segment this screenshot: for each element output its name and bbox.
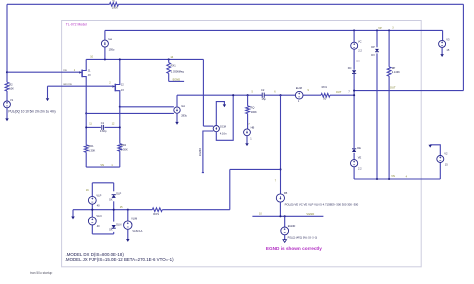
node out upper — [353, 90, 355, 92]
wire out net — [354, 90, 463, 92]
source EGND — [281, 216, 296, 235]
wire clamp gnd stub — [72, 210, 74, 217]
wire GA out — [176, 95, 178, 107]
node inv junction — [6, 71, 8, 73]
wire v3 stub — [442, 30, 444, 40]
wire right loop — [462, 4, 464, 90]
svg-text:VLN: VLN — [96, 214, 101, 218]
wire left input vertical — [6, 4, 8, 82]
diode DC — [348, 60, 360, 73]
svg-text:RO1: RO1 — [322, 85, 328, 89]
node GA tap right — [119, 106, 121, 108]
svg-text:GCM: GCM — [220, 124, 226, 128]
svg-text:2.2: 2.2 — [358, 49, 362, 53]
label model jx — [65, 257, 174, 262]
ground V1 — [5, 118, 9, 121]
svg-text:POL(2) (4P,2) 0N(-.03 -3 -3): POL(2) (4P,2) 0N(-.03 -3 -3) — [288, 236, 318, 239]
svg-text:POL(5) VE VC VE VLP VLN 5 4.71: POL(5) VE VC VE VLP VLN 5 4.7159E9 -300 … — [285, 203, 359, 207]
wire RQ to HB — [248, 114, 251, 129]
wire v2 loop — [430, 145, 440, 179]
wire drain bottom — [86, 151, 120, 167]
svg-text:100K: 100K — [251, 110, 257, 114]
current source HB — [244, 126, 255, 141]
source VLP — [88, 194, 101, 208]
svg-text:195u: 195u — [109, 48, 115, 52]
resistor RD1 — [84, 144, 95, 152]
resistor RP — [387, 66, 400, 76]
resistor RX1 — [167, 59, 185, 81]
wire gcm out loop — [216, 95, 233, 140]
wire top feedback — [7, 3, 463, 5]
label OUT right — [390, 85, 396, 89]
svg-text:PUL(0Q 10 10 5m 2m 2m 1u 4m): PUL(0Q 10 10 5m 2m 2m 1u 4m) — [8, 110, 55, 114]
wire vee rail — [354, 174, 440, 179]
wire HB gnd — [246, 136, 248, 144]
wire v3 gnd — [441, 47, 443, 54]
current source GCM — [213, 124, 227, 135]
svg-text:VLP: VLP — [96, 194, 101, 198]
model bounding box — [62, 21, 422, 267]
svg-text:283u: 283u — [181, 113, 187, 117]
svg-text:RD2: RD2 — [121, 143, 127, 147]
svg-text:JX: JX — [88, 73, 91, 77]
note EGND correct — [266, 246, 322, 251]
svg-text:100K: 100K — [112, 6, 118, 10]
svg-text:1.0306Meg: 1.0306Meg — [171, 69, 185, 73]
wire inv input — [7, 68, 79, 72]
svg-text:V3: V3 — [446, 38, 450, 42]
resistor RD2 — [118, 143, 128, 151]
svg-text:1.30K: 1.30K — [121, 147, 128, 151]
svg-text:VN: VN — [391, 174, 395, 178]
source V2 — [437, 152, 448, 167]
svg-text:DX: DX — [109, 229, 113, 232]
node GA tap left — [85, 112, 87, 114]
ground VLIM — [126, 239, 130, 242]
label FB poly — [285, 203, 359, 207]
resistor R1 — [110, 0, 119, 10]
current source FB — [276, 191, 287, 202]
svg-text:2.2: 2.2 — [358, 167, 362, 171]
node Iee rail — [104, 58, 106, 60]
wire VP rail — [105, 26, 443, 31]
source V3 — [439, 38, 450, 52]
svg-text:EGND: EGND — [288, 224, 296, 228]
label VN drain — [100, 163, 113, 167]
source V1 — [4, 98, 14, 108]
svg-text:VGND: VGND — [306, 212, 314, 216]
wire gcm top gnd — [216, 102, 224, 126]
svg-text:C2: C2 — [261, 88, 265, 92]
node rp vee — [388, 178, 390, 180]
node gcm bus — [232, 94, 234, 96]
node RX1 rail — [168, 56, 174, 61]
svg-text:VP: VP — [378, 26, 382, 30]
svg-text:10K: 10K — [9, 87, 14, 91]
wire V1 to ground — [6, 108, 8, 119]
svg-text:non inv: non inv — [63, 82, 72, 86]
svg-text:HB: HB — [251, 126, 255, 130]
source VE — [351, 155, 363, 170]
resistor RO1 — [321, 85, 330, 101]
svg-text:DX: DX — [109, 199, 113, 202]
wire Iee branch — [104, 30, 106, 59]
source VLN — [88, 214, 101, 228]
svg-text:DX: DX — [371, 54, 375, 57]
current source GA — [174, 104, 188, 117]
svg-text:EGND: EGND — [173, 77, 181, 81]
label non inv — [63, 82, 111, 86]
svg-text:C1: C1 — [101, 121, 105, 125]
svg-text:R2: R2 — [9, 82, 13, 86]
svg-text:RQ: RQ — [251, 105, 255, 109]
wire clamp bottom — [92, 233, 113, 235]
wire GA input lower — [86, 112, 174, 114]
svg-text:GA: GA — [181, 104, 185, 108]
svg-text:3.60p: 3.60p — [100, 129, 107, 133]
label bus nodes — [252, 89, 351, 94]
svg-text:RP: RP — [392, 66, 396, 70]
svg-text:V1: V1 — [10, 98, 14, 102]
node clamp tie — [279, 168, 281, 170]
vcvs ELIM — [295, 86, 303, 103]
ground clamp — [71, 217, 75, 220]
resistor ROS — [152, 208, 162, 216]
node dp rail — [376, 29, 378, 31]
svg-text:VN: VN — [100, 163, 104, 167]
wire J2 drain lower — [119, 107, 121, 144]
svg-text:VLIM: VLIM — [131, 217, 137, 221]
label TL-072 Model — [66, 23, 87, 27]
svg-text:FB: FB — [284, 191, 288, 195]
wire stage bus — [177, 94, 354, 96]
svg-text:R1: R1 — [112, 0, 116, 3]
node dp vee — [376, 178, 378, 180]
ground GA — [175, 122, 179, 125]
wire J1 drain lower — [85, 113, 87, 144]
svg-text:RX1: RX1 — [171, 64, 177, 68]
svg-text:1.30K: 1.30K — [88, 149, 95, 153]
ground V2 — [429, 145, 432, 148]
capacitor C2 — [261, 88, 266, 101]
wire rp column — [388, 30, 390, 179]
svg-text:DLN: DLN — [116, 222, 121, 226]
svg-text:DE: DE — [357, 146, 361, 150]
label EGND poly — [288, 236, 318, 239]
svg-text:DP: DP — [371, 46, 375, 49]
svg-text:DLP: DLP — [116, 191, 121, 195]
node RQ bus — [247, 94, 249, 96]
diode DE — [352, 146, 361, 152]
jfet J1 — [79, 59, 91, 113]
resistor R2 — [5, 82, 14, 91]
wire gcm lower pin — [202, 131, 214, 173]
wire dlp column — [113, 183, 115, 234]
wire EGND stub — [169, 77, 184, 81]
source VLIM — [124, 217, 143, 233]
ground noninv — [46, 98, 50, 101]
capacitor C1 — [85, 121, 121, 133]
source VC — [351, 40, 363, 53]
wire source rail — [86, 55, 203, 59]
svg-text:15p: 15p — [262, 97, 267, 101]
wire vlp column — [91, 183, 93, 234]
label V1 pulse — [8, 110, 55, 114]
ground GCM — [223, 104, 226, 107]
svg-text:JX: JX — [121, 88, 124, 92]
wire fb to egnd — [279, 202, 281, 216]
jfet J2 — [112, 59, 124, 106]
node out lower — [353, 94, 355, 96]
svg-text:DX: DX — [356, 60, 360, 63]
svg-text:ROS: ROS — [153, 212, 159, 216]
svg-text:VE: VE — [358, 155, 362, 159]
svg-text:VLIM 1A: VLIM 1A — [132, 229, 142, 233]
svg-text:2.143K: 2.143K — [392, 70, 400, 74]
ground HB — [245, 143, 249, 146]
ground EGND — [283, 235, 287, 243]
node J2 source rail — [119, 58, 121, 60]
label tran — [30, 271, 53, 275]
svg-text:1/GMO: 1/GMO — [198, 148, 202, 156]
svg-text:4.16n: 4.16n — [220, 132, 227, 136]
svg-text:DC: DC — [348, 66, 352, 70]
diode DP — [371, 46, 379, 57]
svg-text:TL-072 Model: TL-072 Model — [66, 23, 87, 27]
current source Iee — [101, 37, 115, 52]
wire clamp top — [86, 183, 114, 192]
svg-text:Iee: Iee — [109, 37, 113, 41]
diode DLP — [109, 191, 121, 201]
wire noninv stub — [48, 86, 113, 98]
ground V3 — [440, 54, 444, 57]
svg-text:EGND is shown correctly: EGND is shown correctly — [266, 246, 322, 251]
svg-text:ELIM: ELIM — [296, 86, 302, 90]
svg-text:OUT: OUT — [390, 85, 396, 89]
resistor RQ — [246, 95, 257, 114]
svg-text:OUT: OUT — [336, 90, 342, 94]
wire GA input upper — [120, 106, 174, 108]
node rp rail — [388, 29, 390, 31]
wire R2 to V1 — [6, 91, 8, 101]
wire vlim stub — [127, 210, 129, 221]
wire fb vertical — [275, 95, 281, 194]
wire vc chain — [353, 30, 355, 179]
wire vlim gnd — [127, 229, 129, 239]
svg-text:VC: VC — [358, 40, 362, 44]
node vp vc — [353, 29, 355, 31]
svg-text:V2: V2 — [444, 152, 448, 156]
svg-text:.MODEL JX PJF(IS=15.0E-12 BETA: .MODEL JX PJF(IS=15.0E-12 BETA=270.1E-6 … — [65, 257, 174, 262]
label 1/GMO — [198, 148, 202, 156]
svg-text:RD1: RD1 — [88, 144, 94, 148]
node bus 280 — [279, 94, 281, 96]
label model dx — [66, 252, 125, 257]
wire egnd net — [252, 212, 323, 217]
wire clamp tie — [230, 169, 281, 209]
wire cm sense — [203, 59, 213, 126]
svg-text:tran 50u startup: tran 50u startup — [30, 271, 53, 275]
wire GA gnd stub — [176, 113, 178, 122]
wire dp column — [376, 30, 378, 179]
diode DLN — [109, 222, 121, 231]
wire clamp mid — [73, 206, 230, 211]
